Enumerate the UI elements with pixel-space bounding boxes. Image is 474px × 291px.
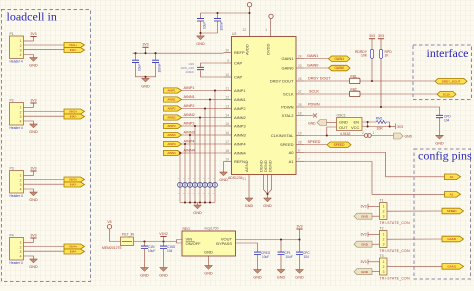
wire AINN2 drop to filter cap (199, 118, 201, 183)
wire BYPASS to CREG (236, 243, 258, 252)
svg-text:Header 4: Header 4 (10, 126, 23, 130)
wire gnd bus under filter caps (180, 203, 215, 206)
svg-text:GND: GND (295, 276, 304, 280)
svg-text:INA3-: INA3- (70, 183, 77, 187)
svg-text:GND: GND (159, 274, 168, 278)
svg-text:AINN1: AINN1 (184, 95, 195, 99)
wire AVDD rail (201, 7, 250, 18)
connector P4 (Header 4) (10, 233, 24, 265)
svg-text:3: 3 (20, 250, 22, 254)
svg-text:AINP3: AINP3 (234, 123, 246, 128)
port GND at OSC1 (308, 120, 327, 126)
wire net AINN2 to IC (182, 117, 224, 119)
svg-text:SCLK: SCLK (443, 92, 451, 96)
svg-text:100nF: 100nF (219, 21, 223, 30)
pin 18 XTAL2 (282, 111, 304, 118)
svg-text:4: 4 (20, 188, 22, 192)
svg-text:1: 1 (383, 260, 385, 264)
junction CLKIN (326, 134, 328, 136)
connector P2 (Header 4) (10, 98, 24, 130)
svg-text:16: 16 (225, 131, 229, 135)
svg-text:10uF: 10uF (262, 255, 269, 259)
power 3V3 at P2 (30, 98, 36, 103)
svg-text:3V3: 3V3 (360, 260, 366, 264)
wire AINN1 drop to filter cap (209, 100, 211, 183)
resistor RDRDY body (370, 49, 373, 58)
svg-text:TRI-STATE_CON: TRI-STATE_CON (380, 221, 411, 225)
svg-text:A1: A1 (450, 192, 454, 196)
junction (154, 52, 156, 54)
svg-text:AINP2: AINP2 (167, 107, 176, 111)
svg-text:~: ~ (213, 177, 215, 181)
svg-text:DGND: DGND (267, 160, 272, 172)
wire 3V3 to T3 pin1 (368, 261, 380, 263)
svg-text:3V3: 3V3 (296, 224, 302, 228)
wire net A1 (304, 162, 445, 195)
port INA1+ (64, 43, 85, 48)
junction gnd bus (199, 201, 201, 203)
ground CP1 (277, 270, 286, 280)
junction RDRDY/DRDY (371, 80, 373, 82)
connector T2 TRI-STATE_CON (380, 226, 411, 253)
junction AINP1 (214, 89, 216, 91)
svg-text:AINP4: AINP4 (167, 142, 176, 146)
svg-text:GAIN0: GAIN0 (447, 237, 456, 241)
region box: interface (413, 45, 472, 100)
wire REFP rail (133, 47, 224, 60)
jumper J1 (362, 131, 375, 137)
svg-text:INA3+: INA3+ (69, 178, 77, 182)
svg-text:2: 2 (362, 131, 364, 135)
wire CPD to gnd (439, 118, 441, 136)
svg-text:~: ~ (208, 177, 210, 181)
junction VCC (367, 125, 369, 127)
svg-text:AINN2: AINN2 (234, 115, 247, 120)
svg-text:17: 17 (225, 140, 229, 144)
svg-text:9: 9 (227, 59, 229, 63)
svg-text:3V3: 3V3 (378, 34, 384, 38)
capacitor CR2 100nF (152, 60, 159, 62)
pin 7 A1 (289, 157, 304, 164)
svg-text:10uF: 10uF (202, 22, 206, 29)
power 3V3 at P4 (30, 233, 36, 238)
port AINP4 (164, 141, 182, 146)
svg-text:4: 4 (20, 53, 22, 57)
junction RPD/PDWN (380, 106, 382, 108)
wire AINP4 drop to filter cap (184, 144, 186, 182)
EMI filter FILT_IN MEM2012TE (102, 232, 135, 250)
svg-text:U2: U2 (232, 32, 236, 36)
wire GND to T3 pin3 (372, 271, 380, 273)
svg-text:25: 25 (298, 103, 302, 107)
power 3V3 RDRDY (369, 34, 375, 39)
wire T1 pin2 out (387, 210, 442, 212)
wire CP1 to gnd (280, 255, 282, 270)
svg-text:7: 7 (298, 157, 300, 161)
svg-text:19: 19 (298, 131, 302, 135)
svg-text:AVDD: AVDD (244, 44, 249, 55)
ground CPD (435, 135, 444, 145)
svg-text:SPEED: SPEED (334, 143, 346, 147)
wire P3 pin3 to port INA3- (24, 183, 65, 185)
svg-text:13: 13 (225, 104, 229, 108)
capacitor C14 (filter) (198, 177, 203, 196)
svg-text:AINN2: AINN2 (167, 116, 176, 120)
junction gnd bus (184, 201, 186, 203)
wire VOUT rail 3V3 (236, 229, 300, 252)
wire 3V3 to T2 pin1 (368, 233, 380, 235)
svg-text:3: 3 (20, 115, 22, 119)
svg-text:104: 104 (304, 255, 310, 259)
svg-text:2: 2 (20, 245, 22, 249)
ground C1N2 (159, 268, 168, 278)
svg-text:2: 2 (20, 178, 22, 182)
svg-text:18: 18 (298, 111, 302, 115)
svg-text:GND: GND (361, 214, 369, 218)
svg-text:1: 1 (20, 241, 22, 245)
wire filter out to regulator (134, 240, 183, 244)
svg-text:P2: P2 (10, 98, 14, 102)
ground C1N (140, 268, 149, 278)
capacitor CA2 100nF (214, 19, 221, 21)
svg-text:3: 3 (20, 183, 22, 187)
junction EN (367, 121, 369, 123)
svg-text:4: 4 (20, 120, 22, 124)
junction AVDD (248, 12, 250, 14)
svg-text:2: 2 (20, 44, 22, 48)
svg-text:loadcell in: loadcell in (7, 10, 57, 24)
power node AVDD supply (247, 2, 251, 6)
junction RM1/3V3 (389, 125, 391, 127)
ground CREG (253, 270, 262, 280)
svg-text:AINN3: AINN3 (234, 132, 247, 137)
svg-text:ADS1234: ADS1234 (228, 176, 243, 180)
wire P2 pin4 to GND (24, 121, 34, 124)
svg-text:GND: GND (204, 250, 213, 255)
wire cap C17 to gnd bus (184, 187, 186, 202)
power 3V3 output (296, 224, 302, 229)
wire net AINN4 to IC (182, 152, 224, 154)
svg-text:P1: P1 (10, 32, 14, 36)
capacitor CREG plates (254, 252, 261, 254)
wire P4 pin2 to port INA4+ (24, 246, 65, 248)
pin 9 CAP (224, 59, 243, 66)
junction C1N (143, 240, 145, 242)
wire AINP2 drop to filter cap (204, 109, 206, 183)
junction CP1 (280, 238, 282, 240)
svg-text:100nF: 100nF (157, 63, 161, 72)
svg-text:1: 1 (373, 131, 375, 135)
svg-text:FILT_IN: FILT_IN (122, 232, 135, 236)
port SPEED near IC (327, 142, 351, 148)
capacitor C18 (filter) (178, 177, 183, 196)
svg-text:AINN4: AINN4 (234, 150, 247, 155)
svg-text:VCC: VCC (351, 125, 360, 130)
wire P3 pin4 to GND (24, 189, 34, 192)
junction DGND (266, 193, 268, 195)
svg-text:MEM2012TE: MEM2012TE (102, 246, 123, 250)
region box: config pins (414, 149, 471, 279)
resistor RDRDY 10K (371, 39, 373, 81)
svg-text:TRI-STATE_CON: TRI-STATE_CON (380, 249, 411, 253)
svg-text:SCLK: SCLK (283, 91, 294, 96)
junction gnd bus (204, 201, 206, 203)
svg-text:104: 104 (167, 249, 173, 253)
junction AINN2 (199, 116, 201, 118)
port INA4- (64, 249, 85, 254)
svg-text:GND: GND (204, 272, 213, 276)
port GAIN1 config (442, 264, 464, 270)
svg-text:10K: 10K (376, 127, 383, 131)
wire OSC1 OUT to CLKIN (304, 127, 365, 136)
power node DVDD supply (269, 14, 273, 18)
wire REFP caps to gnd (136, 63, 156, 79)
svg-text:AINP3: AINP3 (184, 122, 195, 126)
svg-text:~: ~ (178, 177, 180, 181)
junction (144, 76, 146, 78)
svg-text:Header 4: Header 4 (10, 194, 23, 198)
ground REFP caps (141, 78, 150, 88)
resistor RPD body (379, 49, 382, 58)
svg-text:2: 2 (383, 265, 385, 269)
svg-text:11: 11 (226, 86, 230, 90)
capacitor CP1 plates (278, 252, 285, 254)
power V1N2 (159, 232, 168, 237)
junction (144, 52, 146, 54)
capacitor C1N2 plates (160, 246, 167, 248)
wire AINN4 drop to filter cap (179, 153, 181, 182)
svg-text:3V3: 3V3 (142, 43, 148, 47)
svg-text:Header 4: Header 4 (10, 261, 23, 265)
wire net DRDY DOUT (304, 80, 435, 82)
wire P4 pin4 to GND (24, 256, 34, 259)
svg-text:~: ~ (198, 192, 200, 196)
svg-text:INA2-: INA2- (70, 115, 77, 119)
wire CAP pins to C26 (201, 63, 224, 77)
svg-text:GND: GND (263, 204, 272, 208)
svg-text:GND: GND (196, 42, 205, 46)
wire CPC to gnd (299, 255, 301, 270)
capacitor C1N plates (141, 246, 148, 248)
wire net GAIN1 (304, 58, 329, 60)
wire net AINN3 to IC (182, 134, 224, 136)
svg-text:INA1+: INA1+ (69, 43, 77, 47)
wire C1N2 to gnd (163, 249, 165, 268)
svg-text:10: 10 (225, 73, 229, 77)
port GND at T2 (354, 241, 372, 247)
svg-text:23: 23 (298, 64, 302, 68)
wire OSC1 EN/VCC to RM1 (362, 122, 390, 127)
junction CPC (298, 238, 300, 240)
wire cap C12 to gnd bus (209, 187, 211, 202)
pin 13 AINP2 (224, 104, 247, 111)
port GND right of jumper (394, 133, 413, 139)
pin 16 AINN3 (224, 131, 247, 138)
wire net AINP4 to IC (182, 143, 224, 145)
svg-text:AINP1: AINP1 (234, 88, 246, 93)
svg-text:GND: GND (339, 119, 348, 124)
svg-text:~: ~ (188, 192, 190, 196)
svg-text:T3: T3 (380, 254, 384, 258)
junction gnd bus (194, 201, 196, 203)
wire 3V3 to T1 pin1 (368, 205, 380, 207)
pin 18 AINN4 (224, 149, 247, 156)
port GAIN1 (329, 56, 351, 62)
wire cap C18 to gnd bus (179, 187, 181, 202)
svg-text:6: 6 (298, 148, 300, 152)
svg-text:AINN1: AINN1 (234, 97, 247, 102)
svg-text:2: 2 (383, 210, 385, 214)
svg-text:DRDY_DOUT: DRDY_DOUT (442, 79, 461, 83)
capacitor C12 (filter) (208, 177, 213, 196)
ferrite bead FB1 (350, 74, 361, 83)
svg-text:2: 2 (383, 238, 385, 242)
svg-text:DVDD: DVDD (265, 44, 270, 55)
wire P1 pin3 to port INA1- (24, 49, 65, 51)
wire V5 to filter (110, 229, 121, 241)
capacitor CPC plates (296, 252, 303, 254)
svg-text:1: 1 (20, 106, 22, 110)
svg-text:104: 104 (444, 118, 450, 122)
wire VCC rail to 3V3 (390, 126, 396, 128)
resistor RPD 1K (380, 39, 382, 107)
svg-text:GND: GND (29, 130, 38, 134)
svg-text:AINN1: AINN1 (167, 98, 176, 102)
svg-text:~: ~ (188, 177, 190, 181)
pin 21 AGND (242, 160, 249, 198)
svg-text:REG: REG (183, 227, 191, 231)
svg-text:AINP3: AINP3 (167, 124, 176, 128)
pin 20 REFP (224, 48, 246, 55)
svg-text:AINP4: AINP4 (234, 141, 246, 146)
svg-text:12: 12 (225, 95, 229, 99)
svg-text:T2: T2 (380, 226, 384, 230)
svg-text:V1N2: V1N2 (159, 232, 168, 236)
svg-text:TRI-STATE_CON: TRI-STATE_CON (380, 277, 411, 281)
wire cap C11 to gnd bus (214, 187, 216, 202)
wire cap C15 to gnd bus (194, 187, 196, 202)
svg-text:A0: A0 (289, 150, 295, 155)
svg-text:AINP1: AINP1 (167, 89, 176, 93)
wire net AINP3 to IC (182, 125, 224, 127)
wire P3 pin1 to 3V3 (24, 175, 34, 177)
svg-text:22: 22 (242, 28, 246, 32)
svg-text:GAIN0: GAIN0 (307, 64, 318, 68)
wire net SPEED (304, 144, 327, 146)
wire AINN3 drop to filter cap (189, 135, 191, 182)
svg-text:~: ~ (208, 192, 210, 196)
svg-text:EN: EN (354, 119, 360, 124)
wire P2 pin1 to 3V3 (24, 107, 34, 109)
pin 10 CAP (224, 73, 243, 80)
junction AINP2 (204, 107, 206, 109)
connector T1 TRI-STATE_CON (380, 198, 411, 225)
pin 11 AINP1 (224, 86, 247, 93)
ground at P2 (29, 124, 38, 134)
capacitor CPD plates (436, 115, 443, 117)
power 3V3 at P1 (30, 32, 36, 37)
ground AGND (245, 198, 254, 208)
svg-text:GAIN1: GAIN1 (281, 56, 294, 61)
svg-text:DRDY DOUT: DRDY DOUT (308, 76, 331, 80)
svg-text:GND: GND (219, 178, 228, 182)
svg-text:GND: GND (253, 276, 262, 280)
svg-text:OSC1: OSC1 (337, 114, 346, 118)
svg-text:3V3: 3V3 (360, 205, 366, 209)
capacitor C16 (filter) (188, 177, 193, 196)
port INA3- (64, 182, 85, 187)
svg-text:A0: A0 (450, 175, 454, 179)
wire P4 pin3 to port INA4- (24, 250, 65, 252)
power 3V3 RPD (378, 34, 384, 39)
pins 2,3,4 DGND (258, 160, 272, 198)
svg-text:1: 1 (383, 233, 385, 237)
svg-text:config pins: config pins (418, 149, 472, 163)
pin 28 SPEED (280, 140, 304, 147)
capacitor CA1 10uF (197, 19, 204, 21)
svg-text:3: 3 (20, 48, 22, 52)
svg-text:GND: GND (308, 121, 316, 125)
svg-text:~: ~ (178, 192, 180, 196)
ground CPC (295, 270, 304, 280)
capacitor C11 (filter) (213, 177, 218, 196)
svg-text:INA4-: INA4- (70, 250, 77, 254)
svg-text:CAP: CAP (234, 60, 243, 65)
svg-text:P3: P3 (10, 166, 14, 170)
svg-text:AINP2: AINP2 (234, 106, 246, 111)
svg-text:PDWN: PDWN (281, 104, 293, 109)
svg-text:GND: GND (193, 211, 202, 215)
svg-text:FB2: FB2 (351, 87, 357, 91)
svg-text:~: ~ (203, 192, 205, 196)
wire (33, 103, 35, 108)
capacitor C17 (filter) (183, 177, 188, 196)
svg-text:GND: GND (29, 198, 38, 202)
svg-text:14: 14 (225, 113, 229, 117)
wire P3 pin2 to port INA3+ (24, 179, 65, 181)
capacitor C15 (filter) (193, 177, 198, 196)
junction AINP4 (184, 143, 186, 145)
junction cap gnd rail (199, 32, 201, 34)
wire T3 pin2 out (387, 265, 442, 267)
pin 27 SCLK (283, 90, 304, 97)
oscillator OSC1 body (337, 114, 363, 137)
svg-text:SPEED: SPEED (280, 142, 294, 147)
wire P2 pin3 to port INA2- (24, 115, 65, 117)
wire T2 pin2 out (387, 238, 442, 240)
wire OSC1 GND pin (327, 122, 337, 124)
wire REFN to ground (223, 162, 225, 173)
svg-text:SPEED: SPEED (447, 209, 457, 213)
port SPEED config (442, 208, 464, 214)
pin 19 REFN (224, 157, 246, 164)
svg-text:~: ~ (198, 177, 200, 181)
pin 24 GAIN1 (281, 54, 304, 61)
svg-text:GND: GND (29, 265, 38, 269)
svg-text:GND: GND (29, 64, 38, 68)
junction gnd bus (209, 201, 211, 203)
svg-text:A1: A1 (289, 159, 295, 164)
svg-text:100nF: 100nF (185, 70, 194, 74)
wire AINP1 drop to filter cap (214, 91, 216, 183)
svg-text:AINN4: AINN4 (167, 151, 176, 155)
junction C1N2 (162, 240, 164, 242)
capacitor C1N 10uF (144, 242, 146, 247)
svg-text:GND: GND (435, 142, 444, 146)
junction gnd bus (189, 201, 191, 203)
port AINP3 (164, 123, 182, 128)
svg-text:interface: interface (427, 46, 469, 60)
